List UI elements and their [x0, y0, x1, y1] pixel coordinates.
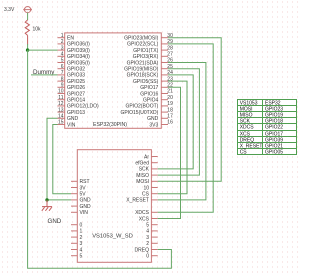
wire 3.3V to resistor	[27, 13, 29, 21]
svg-text:GPIO13: GPIO13	[67, 110, 85, 116]
svg-text:10: 10	[143, 185, 149, 191]
svg-text:GPIO22(SCL): GPIO22(SCL)	[127, 42, 158, 48]
svg-text:GND: GND	[80, 198, 92, 204]
svg-text:VIN: VIN	[80, 210, 89, 216]
svg-text:16: 16	[167, 120, 173, 126]
svg-text:5: 5	[146, 223, 149, 229]
wire GPIO23-MOSI	[158, 38, 222, 182]
svg-text:GPIO15(U0TXD): GPIO15(U0TXD)	[121, 110, 159, 116]
svg-text:27: 27	[167, 52, 173, 58]
VS1053 right pin XDCS row9	[135, 210, 158, 216]
svg-text:DREQ: DREQ	[135, 247, 150, 253]
ESP32 pin 22 (GPIO17)	[140, 83, 173, 92]
ESP32 pin 24 (GPIO18(SCK))	[127, 70, 173, 79]
wire GPIO18-SCK	[158, 75, 194, 169]
ESP32 pin 19 (GPIO2(BOOT))	[126, 101, 174, 110]
VS1053 left pin GND row7	[71, 198, 91, 204]
VS1053 right pin SCK row2	[139, 167, 158, 173]
svg-text:3.3V: 3.3V	[4, 7, 15, 13]
svg-text:GPIO3(RX): GPIO3(RX)	[133, 54, 159, 60]
VS1053 right pin X_RESET row7	[126, 198, 157, 204]
junction node GPIO39 pullup	[26, 48, 29, 51]
svg-text:VIN: VIN	[67, 122, 76, 128]
ESP32 pin 7 (GPIO33)	[58, 70, 86, 79]
svg-text:GPIO19(MISO): GPIO19(MISO)	[124, 67, 159, 73]
svg-text:GND: GND	[147, 116, 159, 122]
VS1053 left pin VIN row9	[71, 210, 88, 216]
power symbol 3.3V	[4, 7, 32, 13]
svg-text:GND: GND	[48, 218, 62, 225]
VS1053 right pin 10 row5	[143, 185, 157, 191]
VS1053 left pin RST row4	[71, 179, 90, 185]
svg-text:6: 6	[61, 64, 64, 70]
svg-text:13: 13	[58, 107, 64, 113]
IC U2 VS1053_W_SD body	[77, 150, 151, 263]
svg-text:9: 9	[61, 83, 64, 89]
svg-text:GPIO25: GPIO25	[67, 79, 85, 85]
svg-text:GPIO17: GPIO17	[140, 85, 158, 91]
svg-text:X_RESET: X_RESET	[126, 198, 149, 204]
VS1053 right pin 5 row11	[146, 223, 157, 229]
svg-text:14: 14	[58, 114, 64, 120]
svg-text:GPIO35(I): GPIO35(I)	[67, 60, 90, 66]
svg-text:GPIO4: GPIO4	[143, 98, 159, 104]
svg-text:GPIO1(TX): GPIO1(TX)	[133, 48, 158, 54]
svg-text:XDCS: XDCS	[240, 125, 255, 131]
VS1053 right pin MOSI row4	[136, 179, 157, 185]
junction node GND	[45, 198, 48, 201]
wire Dummy stub to ESP32 pin7 GPIO33	[31, 74, 58, 76]
svg-text:Ar: Ar	[144, 154, 149, 160]
wire resistor to junction node	[27, 44, 29, 50]
svg-text:3: 3	[80, 241, 83, 247]
svg-text:GND: GND	[80, 204, 92, 210]
svg-text:18: 18	[167, 107, 173, 113]
VS1053 left pin 3 row14	[71, 241, 83, 247]
svg-text:MOSI: MOSI	[136, 179, 149, 185]
svg-text:10: 10	[58, 89, 64, 95]
svg-text:GPIO12(LDO): GPIO12(LDO)	[67, 104, 99, 110]
ESP32 pin 2 (GPIO36(I))	[58, 39, 91, 48]
table VS1053-ESP32 pin mapping	[238, 100, 297, 156]
VS1053 left pin 5 row16	[71, 254, 83, 260]
ESP32 pin 28 (GPIO1(TX))	[133, 45, 173, 54]
VS1053 right pin 0 row16	[146, 254, 157, 260]
wire GPIO22-XDCS	[158, 44, 214, 212]
VS1053 right pin XCS row10	[139, 216, 158, 222]
svg-text:GPIO36(I): GPIO36(I)	[67, 42, 90, 48]
svg-text:GPIO05: GPIO05	[265, 150, 283, 156]
svg-text:4: 4	[80, 247, 83, 253]
svg-text:CS: CS	[142, 192, 150, 198]
ESP32 pin 10 (GPIO27)	[58, 89, 86, 98]
svg-text:GPIO34(I): GPIO34(I)	[67, 54, 90, 60]
svg-text:5: 5	[61, 58, 64, 64]
svg-text:GPIO21(SDA): GPIO21(SDA)	[127, 60, 159, 66]
ESP32 pin 5 (GPIO35(I))	[58, 58, 91, 67]
VS1053 right pin 4 row12	[146, 229, 157, 235]
ESP32 pin 13 (GPIO13)	[58, 107, 86, 116]
VS1053 right pin Ar row0	[144, 154, 158, 160]
svg-text:ESP32(30PIN): ESP32(30PIN)	[93, 122, 127, 128]
ESP32 pin 1 (EN)	[58, 33, 75, 42]
svg-text:10k: 10k	[33, 27, 42, 33]
svg-text:3V3: 3V3	[149, 122, 158, 128]
svg-text:SCK: SCK	[139, 167, 150, 173]
ESP32 pin 15 (VIN)	[58, 120, 76, 129]
VS1053 left pin 4 row15	[71, 247, 83, 253]
svg-text:19: 19	[167, 101, 173, 107]
svg-text:efGed: efGed	[135, 161, 149, 167]
VS1053 right pin MISO row3	[136, 173, 157, 179]
VS1053 right pin DREQ row15	[135, 247, 158, 253]
svg-text:GPIO2(BOOT): GPIO2(BOOT)	[126, 104, 159, 110]
ESP32 pin 17 (GND)	[147, 114, 173, 123]
VS1053 left pin 0 row11	[71, 223, 83, 229]
IC U1 ESP32(30PIN) body	[65, 33, 162, 128]
svg-text:XCS: XCS	[139, 216, 150, 222]
svg-text:1: 1	[61, 33, 64, 39]
ESP32 pin 27 (GPIO3(RX))	[133, 52, 173, 61]
VS1053 right pin 2 row14	[146, 241, 157, 247]
svg-text:2: 2	[146, 241, 149, 247]
svg-text:4: 4	[146, 229, 149, 235]
VS1053 left pin 1 row12	[71, 229, 83, 235]
svg-text:MISO: MISO	[136, 173, 149, 179]
VS1053 right pin 3 row13	[146, 235, 157, 241]
svg-text:GPIO23(MOSI): GPIO23(MOSI)	[124, 36, 159, 42]
svg-text:3V: 3V	[80, 185, 87, 191]
ESP32 pin 16 (3V3)	[149, 120, 173, 129]
svg-text:21: 21	[167, 89, 173, 95]
svg-text:GPIO16: GPIO16	[140, 91, 158, 97]
ESP32 pin 8 (GPIO25)	[58, 76, 86, 85]
ESP32 pin 21 (GPIO16)	[140, 89, 173, 98]
svg-text:XDCS: XDCS	[135, 210, 150, 216]
svg-text:8: 8	[61, 76, 64, 82]
svg-text:GPIO14: GPIO14	[67, 98, 85, 104]
svg-text:5V: 5V	[80, 192, 87, 198]
svg-text:CS: CS	[240, 150, 248, 156]
svg-text:7: 7	[61, 70, 64, 76]
ESP32 pin 11 (GPIO14)	[58, 95, 86, 104]
svg-text:GPIO33: GPIO33	[67, 73, 85, 79]
ESP32 pin 23 (GPIO5(SS))	[133, 76, 173, 85]
svg-text:EN: EN	[67, 36, 74, 42]
svg-text:15: 15	[58, 120, 64, 126]
svg-text:0: 0	[146, 254, 149, 260]
VS1053 left pin 2 row13	[71, 235, 83, 241]
ESP32 pin 6 (GPIO32)	[58, 64, 86, 73]
VS1053 left pin 3V row5	[71, 185, 86, 191]
svg-text:17: 17	[167, 114, 173, 120]
VS1053 left pin GND row8	[71, 204, 91, 210]
ESP32 pin 20 (GPIO4)	[143, 95, 173, 104]
svg-text:GPIO32: GPIO32	[67, 67, 85, 73]
ESP32 pin 25 (GPIO19(MISO))	[124, 64, 173, 73]
svg-text:GPIO22: GPIO22	[265, 125, 283, 131]
svg-text:2: 2	[61, 39, 64, 45]
svg-text:VS1053_W_SD: VS1053_W_SD	[92, 234, 133, 240]
svg-text:GPIO5(SS): GPIO5(SS)	[133, 79, 159, 85]
svg-text:GPIO18(SCK): GPIO18(SCK)	[127, 73, 159, 79]
ESP32 pin 18 (GPIO15(U0TXD))	[121, 107, 174, 116]
ESP32 pin 4 (GPIO34(I))	[58, 52, 91, 61]
svg-text:RST: RST	[80, 179, 90, 185]
ESP32 pin 29 (GPIO22(SCL))	[127, 39, 173, 48]
svg-text:1: 1	[80, 229, 83, 235]
ESP32 pin 26 (GPIO21(SDA))	[127, 58, 173, 67]
wire GPIO21-X_RESET	[158, 63, 206, 200]
ESP32 pin 30 (GPIO23(MOSI))	[124, 33, 173, 42]
svg-text:GPIO26: GPIO26	[67, 85, 85, 91]
svg-text:20: 20	[167, 95, 173, 101]
VS1053 left pin 5V row6	[71, 192, 86, 198]
resistor 10k	[25, 20, 41, 45]
wire GPIO17-XCS	[158, 87, 181, 218]
svg-text:GPIO27: GPIO27	[67, 91, 85, 97]
svg-text:3: 3	[61, 45, 64, 51]
ground symbol	[42, 200, 62, 225]
wire junction to ESP32 pin3 GPIO39	[28, 49, 58, 51]
VS1053 right pin CS row6	[142, 192, 158, 198]
svg-text:12: 12	[58, 101, 64, 107]
ESP32 pin 9 (GPIO26)	[58, 83, 86, 92]
ESP32 pin 12 (GPIO12(LDO))	[58, 101, 100, 110]
wire ESP32 pin15 VIN to VS1053 5V	[53, 125, 71, 194]
svg-text:GPIO39(I): GPIO39(I)	[67, 48, 90, 54]
wire GPIO19-MISO	[158, 69, 200, 175]
VS1053 right pin efGed row1	[135, 161, 157, 167]
ESP32 pin 3 (GPIO39(I))	[58, 45, 91, 54]
svg-text:2: 2	[80, 235, 83, 241]
wire GPIO39 net to VS1053 DREQ (left+bottom route)	[28, 50, 172, 268]
svg-text:GND: GND	[67, 116, 79, 122]
svg-text:0: 0	[80, 223, 83, 229]
svg-text:4: 4	[61, 52, 64, 58]
ESP32 pin 14 (GND)	[58, 114, 79, 123]
svg-text:28: 28	[167, 45, 173, 51]
wire ESP32 pin14 GND to VS1053 GND	[47, 118, 71, 200]
svg-text:11: 11	[58, 95, 63, 101]
svg-text:5: 5	[80, 254, 83, 260]
svg-text:3: 3	[146, 235, 149, 241]
wire GPIO5-CS	[158, 81, 187, 194]
